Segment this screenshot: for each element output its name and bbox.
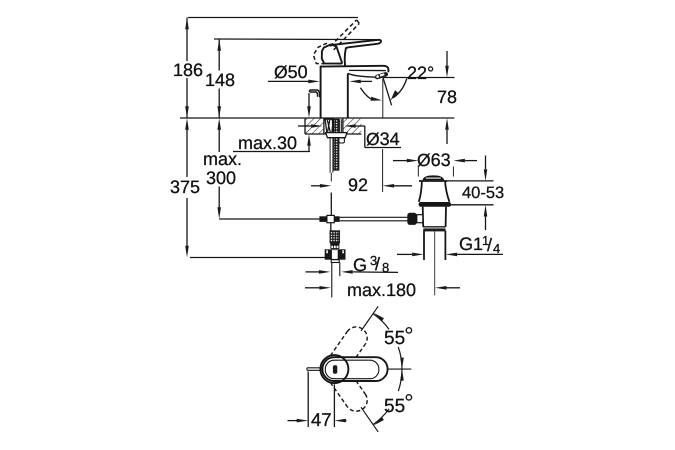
dimension 375 vertical line bbox=[185, 118, 189, 258]
threaded shank below faucet bbox=[334, 119, 339, 170]
label max.180 bbox=[347, 281, 416, 299]
pull rod below nut bbox=[330, 138, 333, 182]
plan body circle bbox=[320, 355, 348, 383]
dimension Ø63 bbox=[393, 159, 477, 177]
braided flex hose bbox=[330, 231, 340, 243]
label 55 degrees upper bbox=[384, 329, 405, 348]
label G1 1/4 thread bbox=[459, 235, 483, 253]
hose below fitting bbox=[330, 223, 332, 231]
pop-up linkage cross fitting bbox=[319, 215, 339, 222]
water stream line bbox=[383, 78, 391, 105]
dashed capsule upper bbox=[330, 323, 371, 369]
label diameter 63 bbox=[416, 151, 450, 169]
55 lower arc bbox=[373, 369, 404, 425]
supply hose upper segment bbox=[330, 193, 332, 216]
label 148 bbox=[205, 71, 235, 89]
label 55 degrees lower bbox=[384, 397, 405, 416]
label 40-53 bbox=[462, 184, 504, 202]
pop-up rod ball joint at drain bbox=[407, 213, 423, 225]
dimension G1 1/4 bbox=[397, 253, 503, 257]
plan lever capsule bbox=[322, 357, 387, 381]
plan horizontal centerline bbox=[388, 368, 412, 370]
vertical outlet reference line upper bbox=[382, 78, 384, 118]
22 degree arc right segment with arrow bbox=[390, 79, 406, 101]
55 upper arc bbox=[373, 313, 404, 369]
plan pop-up rod bbox=[307, 368, 324, 371]
label diameter 34 bbox=[366, 130, 400, 148]
label G 3/8 thread bbox=[352, 256, 366, 274]
dimension 92 bbox=[311, 184, 412, 188]
extension line 148 level bbox=[214, 38, 377, 41]
counter hatched band right part bbox=[343, 118, 362, 134]
label 22 degrees bbox=[407, 64, 434, 82]
dashed rotated boss bbox=[313, 43, 327, 64]
degree mark lower 55 bbox=[406, 395, 411, 400]
drain body bbox=[423, 207, 446, 232]
horizontal pop-up rod to drain bbox=[340, 217, 408, 221]
dimension max.300 vertical line bbox=[217, 118, 221, 219]
plan logo dot bbox=[333, 365, 337, 373]
drain tailpipe G1 1/4 bbox=[424, 231, 445, 260]
label 300 (of max.300) bbox=[206, 169, 236, 187]
counter bottom line bbox=[305, 133, 362, 135]
dimension 78 vertical line bbox=[445, 51, 449, 144]
faucet body outline bbox=[321, 66, 389, 118]
375 bottom reference line bbox=[190, 257, 325, 259]
aerator at spout tip bbox=[375, 72, 388, 79]
drain lift knob bbox=[423, 175, 445, 180]
plan silhouette mask bbox=[320, 355, 387, 383]
lever pivot boss bbox=[322, 44, 342, 63]
dimension max.180 bbox=[305, 286, 460, 290]
dimension 148 vertical line bbox=[217, 39, 221, 118]
mounting horseshoe wedge in counter hole bbox=[325, 119, 333, 133]
connector collar below nut bbox=[331, 260, 339, 263]
label 47 bbox=[311, 411, 332, 430]
55 upper leader line bbox=[361, 306, 378, 331]
dashed capsule lower bbox=[330, 370, 371, 416]
max.300 bottom reference line bbox=[219, 218, 319, 220]
counter hatched band left part bbox=[305, 118, 324, 134]
label 186 bbox=[173, 61, 203, 79]
mounting nut under counter bbox=[326, 133, 347, 143]
dashed raised lever blade bbox=[330, 20, 359, 50]
dimension 186 vertical line bbox=[185, 18, 189, 119]
label 78 bbox=[436, 88, 456, 106]
lever handle blade bbox=[330, 40, 382, 66]
G3/8 pipe bbox=[332, 263, 340, 298]
drain flange trumpet bbox=[419, 181, 450, 202]
degree mark upper 55 bbox=[406, 328, 411, 333]
dimension Ø50 leader bbox=[268, 80, 372, 84]
22 degree underline / 78 top reference line bbox=[383, 77, 455, 79]
label 92 bbox=[348, 176, 368, 194]
label max. (of max.300) bbox=[203, 150, 242, 168]
55 lower leader line bbox=[361, 407, 378, 432]
counter top line bbox=[180, 117, 454, 119]
hose ferrule bbox=[330, 242, 339, 248]
vertical outlet reference line lower bbox=[382, 149, 384, 192]
dimension 47 bbox=[288, 372, 347, 428]
label 375 bbox=[170, 178, 200, 196]
drain centerline bbox=[434, 232, 436, 296]
22 degree arc left segment with arrow bbox=[360, 88, 382, 101]
dimension G3/8 bbox=[306, 270, 399, 274]
label diameter 50 bbox=[274, 63, 308, 81]
label max.30 bbox=[237, 134, 296, 152]
pop-up rod knob behind body bbox=[310, 90, 320, 97]
dimension Ø34 leader bbox=[298, 124, 401, 147]
plan lever inner edge bbox=[325, 360, 379, 379]
drain rubber gasket bbox=[419, 202, 451, 207]
hose end nut G3/8 bbox=[325, 249, 346, 259]
dark cone in counter hole bbox=[332, 119, 335, 133]
extension line top (186 level) bbox=[188, 17, 358, 19]
dimension 40-53 bbox=[447, 156, 493, 231]
dimension max.30 bbox=[233, 93, 311, 152]
pull rod in counter hole bbox=[340, 119, 342, 132]
